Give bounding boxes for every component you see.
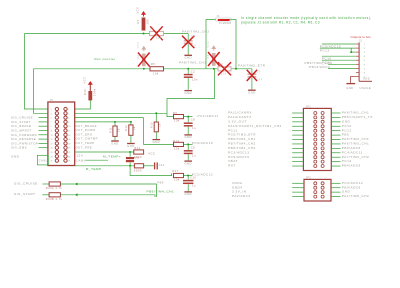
svg-text:VCC: VCC [83, 77, 87, 84]
net label SIG_START row [14, 192, 35, 196]
svg-text:6: 6 [68, 118, 69, 120]
wire JP1 left pin 1 [292, 112, 303, 114]
svg-text:GND: GND [184, 91, 191, 95]
net label VBAT [228, 159, 238, 163]
svg-text:R30B 4.7k: R30B 4.7k [46, 197, 63, 201]
ground for R11 [111, 141, 119, 145]
wire JP1 right pin 11 [331, 156, 340, 158]
resistor R3A [46, 182, 63, 190]
jumper J1 [216, 15, 232, 25]
svg-text:R13: R13 [173, 139, 179, 143]
svg-text:1u: 1u [192, 184, 196, 188]
wire R13 out [184, 143, 193, 145]
svg-text:PB4/ADC9: PB4/ADC9 [342, 164, 361, 168]
net label 3.3V_IN [232, 190, 247, 194]
svg-text:R10: R10 [83, 89, 87, 95]
svg-text:USAGE: USAGE [360, 86, 372, 90]
connector J2 label [359, 39, 363, 42]
connector J5 [48, 99, 75, 165]
svg-text:GND: GND [342, 190, 351, 194]
svg-text:PA5/TIM3_CH1: PA5/TIM3_CH1 [342, 137, 369, 141]
power VCC for R2B (ghosted) [136, 41, 146, 51]
svg-text:R14: R14 [134, 146, 140, 150]
ground for C10 [184, 192, 192, 196]
net label GND4 [232, 185, 243, 189]
svg-text:GND: GND [11, 154, 20, 158]
svg-text:21: 21 [51, 152, 53, 154]
wire JP1 right pin 13 [331, 165, 340, 167]
net label PC5/ADC15 (J2) [320, 44, 341, 48]
wire row1 to R6h [167, 113, 174, 116]
net label PC13 (J2) [320, 48, 330, 52]
resistor R4 (crossed out) [206, 52, 219, 66]
net label PA15/USART1_RX/TIM1_CH2 [228, 124, 282, 128]
svg-text:C11: C11 [159, 163, 165, 167]
connector JP1 [303, 105, 331, 170]
svg-text:12: 12 [68, 131, 70, 133]
wire SIG_CRUISE to J5 [39, 117, 48, 119]
wire JP1 right pin 1 [331, 112, 340, 114]
wire JP2 right pin 4 [331, 196, 341, 198]
net label PA12/CANTX [228, 115, 252, 119]
svg-text:PB6/TIM4_CH1: PB6/TIM4_CH1 [147, 189, 175, 193]
svg-text:11: 11 [51, 131, 53, 133]
net label PB14/ADC4 [309, 65, 330, 69]
pin label OUT_BRAKE [76, 124, 97, 128]
capacitor C11 [155, 162, 165, 169]
resistor R12 [124, 122, 136, 143]
svg-text:15: 15 [51, 139, 53, 141]
svg-text:8: 8 [68, 122, 69, 124]
svg-text:GND: GND [184, 135, 191, 139]
net label PC11 (J2) [322, 60, 332, 64]
wire JP1 left pin 10 [292, 152, 303, 154]
wire R19 to C11 [144, 165, 154, 167]
net label PB4/ADC9 [342, 164, 361, 168]
wire SIG_CRUISE stub [42, 183, 49, 185]
svg-text:R5: R5 [151, 62, 155, 66]
svg-text:PA15/USART1_RX/TIM1_CH2: PA15/USART1_RX/TIM1_CH2 [228, 124, 282, 128]
svg-text:10: 10 [68, 126, 70, 128]
net label PA0/TIM2_ETR [238, 63, 266, 67]
junction R2B/wire B [143, 68, 145, 70]
svg-text:TH: TH [135, 158, 139, 160]
svg-text:16: 16 [68, 139, 70, 141]
wire SIG_BRAKE to J5 [39, 125, 48, 127]
pin label OUT_ERG [76, 132, 93, 136]
net label RST [228, 164, 236, 168]
svg-text:OUT_PRE: OUT_PRE [76, 145, 93, 149]
svg-text:PC13: PC13 [320, 48, 330, 52]
net label PC0/TIM3_ETR [228, 133, 256, 137]
ground for C3 [248, 90, 256, 94]
svg-text:1: 1 [51, 109, 52, 111]
wire channel A [25, 33, 189, 35]
wire J5 row1 long [75, 112, 167, 114]
svg-text:PA8/TIM3_CH2: PA8/TIM3_CH2 [182, 30, 209, 34]
ground for C9 [184, 161, 192, 165]
thermistor RT1 [126, 152, 139, 166]
net label SIG_EMS [11, 146, 27, 150]
svg-text:10k: 10k [174, 177, 180, 181]
wire JP1 left pin 8 [292, 143, 303, 145]
pin label OUT_CWTMP [76, 137, 99, 141]
resistor R11 [108, 122, 120, 140]
net label SIG_REVERSE [11, 137, 36, 141]
net label PC1/ADC11 [198, 114, 219, 118]
svg-text:Rev counter: Rev counter [95, 57, 116, 61]
resistor R6B (crossed out) [218, 62, 231, 76]
svg-text:VDDA: VDDA [232, 181, 243, 185]
junction R4/wire B [213, 68, 215, 70]
label VCC text [148, 152, 155, 156]
svg-text:2: 2 [68, 109, 69, 111]
svg-text:PA12/CANTX: PA12/CANTX [228, 115, 252, 119]
wire M_TEMP- row [75, 165, 135, 167]
net label SIG_BRAKE [11, 124, 31, 128]
net label SIG_CRUISE row [14, 181, 38, 185]
svg-text:SIG_CRUISE: SIG_CRUISE [14, 181, 38, 185]
wire JP2 left pin 3 [292, 191, 304, 193]
svg-text:PB5: PB5 [342, 133, 349, 137]
junction R12/row2 [130, 121, 132, 123]
wire loop left to J5 pin 1 [25, 34, 48, 110]
wire JP2 right pin 2 [331, 187, 341, 189]
svg-text:C2: C2 [191, 69, 195, 73]
junction R3A [76, 183, 78, 186]
svg-text:SIG_EMS: SIG_EMS [11, 146, 27, 150]
svg-text:GND: GND [363, 77, 370, 81]
net label PC4/ADC11 [342, 150, 363, 154]
wire JP2 left pin 1 [292, 182, 304, 184]
wire R3A long [60, 184, 156, 197]
svg-text:19: 19 [51, 148, 53, 150]
wire JP1 left pin 11 [292, 156, 303, 158]
svg-text:PB7/TIM4_CH2: PB7/TIM4_CH2 [228, 142, 256, 146]
wire SIG_START stub [42, 194, 49, 196]
svg-text:4: 4 [68, 113, 69, 115]
pin label OUT_PRE [76, 145, 93, 149]
ground for C8 [184, 135, 192, 139]
net label PB6/USART1_TX [342, 115, 373, 119]
svg-text:J2: J2 [359, 39, 363, 42]
wire JP1 left pin 5 [292, 130, 303, 132]
power VCC for R4 (ghosted) [206, 41, 216, 51]
junction C10 [187, 175, 189, 177]
net label SIG_FORWARD [11, 133, 37, 137]
net label PC5/ADC15 [228, 155, 249, 159]
net label GND [342, 190, 351, 194]
resistor R2B (crossed out) [136, 53, 149, 67]
svg-text:R30A 4.7k: R30A 4.7k [46, 186, 63, 190]
wire J2 pin5 [322, 59, 356, 61]
svg-text:R2: R2 [150, 27, 154, 31]
svg-text:17: 17 [51, 143, 53, 145]
wire loop inner to J5 pin 3 [34, 69, 48, 114]
net label CANL box [37, 155, 48, 165]
wire JP1 left pin 7 [292, 139, 303, 141]
wire JP2 right pin 3 [331, 191, 341, 193]
net label PA2/ADC2 [232, 194, 251, 198]
wire J2 pin2-3 link [351, 48, 356, 52]
net label PA5/TIM3_CH1 [342, 137, 369, 141]
net label PB7/TIM4_CH2 [228, 142, 256, 146]
resistor R14 [134, 146, 144, 159]
resistor R5 [150, 62, 164, 76]
label PB6/TIM4_CH1 green [147, 189, 175, 193]
net label VSENSE [360, 86, 372, 90]
ground for J2 [346, 84, 355, 90]
svg-text:PC5/ADC15: PC5/ADC15 [228, 155, 249, 159]
wire channel B [34, 68, 252, 70]
wire SIG_PWR/STOP to J5 [39, 142, 48, 144]
pin label OUT_DOWN [76, 128, 96, 132]
svg-text:10n: 10n [192, 77, 198, 81]
svg-text:R2: R2 [136, 55, 140, 59]
svg-text:CANH: CANH [76, 159, 87, 163]
svg-text:VBAT: VBAT [228, 159, 238, 163]
junction R11/row3 [114, 121, 116, 123]
wire R6h out [184, 116, 193, 118]
net label PB0/ADC8 [342, 185, 361, 189]
svg-text:22: 22 [68, 152, 70, 154]
net label SIG_PWR/STOP [11, 141, 38, 145]
pin mark group3 [171, 173, 173, 175]
resistor R10 [83, 86, 97, 100]
net label SIG_START [11, 120, 31, 124]
svg-text:GND: GND [342, 119, 351, 123]
svg-text:VCC: VCC [148, 152, 155, 156]
resistor R1 [136, 18, 150, 31]
power VCC for R1 [136, 7, 146, 17]
svg-text:PC0/ADC10: PC0/ADC10 [192, 141, 213, 145]
resistor R13 [173, 139, 184, 151]
wire J2 pin7 [328, 67, 356, 69]
net label PC10 (J2) [322, 56, 332, 60]
wire JP1 right pin 12 [331, 161, 340, 163]
resistor R15 [150, 113, 162, 139]
wire JP1 right pin 9 [331, 147, 340, 149]
wire JP2 left pin 2 [292, 187, 304, 189]
wire M_TEMP+ row [75, 151, 134, 153]
svg-text:2k: 2k [116, 128, 120, 132]
svg-text:In single channel encoder mode: In single channel encoder mode (typicall… [241, 16, 372, 20]
svg-text:J5: J5 [50, 99, 54, 102]
svg-text:GND: GND [248, 91, 255, 95]
pin label CANH [76, 159, 87, 163]
svg-text:GND: GND [184, 192, 191, 196]
svg-text:PC4/ADC11: PC4/ADC11 [342, 150, 363, 154]
wire SIG_EMS to J5 [39, 147, 48, 149]
svg-text:1u: 1u [192, 126, 196, 130]
svg-text:2k: 2k [132, 126, 136, 130]
svg-text:3: 3 [51, 113, 52, 115]
net label PC0/ADC10 [192, 141, 213, 145]
ground for R15 [153, 140, 161, 144]
svg-text:C8: C8 [191, 118, 195, 122]
svg-text:PB8/TIM4_CH4: PB8/TIM4_CH4 [228, 146, 256, 150]
svg-text:PC10: PC10 [342, 124, 352, 128]
wire J5 row2 long [75, 117, 144, 119]
wire JP1 right pin 4 [331, 125, 340, 127]
junction R1/wire A [143, 33, 145, 35]
net label PA8/TIM1_CH1 [342, 111, 369, 115]
svg-text:10k: 10k [153, 71, 159, 75]
svg-text:R6: R6 [173, 111, 177, 115]
svg-text:VCC: VCC [136, 7, 140, 14]
wire JP1 right pin 10 [331, 152, 340, 154]
net label PB0/ADC8 [342, 146, 361, 150]
label M_TEMP- [86, 167, 103, 171]
svg-text:R17: R17 [172, 169, 178, 173]
svg-text:SIG_START: SIG_START [14, 192, 35, 196]
wire J5 row3 [75, 121, 131, 123]
svg-text:GND: GND [346, 86, 353, 90]
label Rev counter [95, 57, 116, 61]
svg-text:GND4: GND4 [232, 185, 243, 189]
net label GND [342, 119, 351, 123]
svg-text:PA6/TIM3_CH1: PA6/TIM3_CH1 [342, 142, 369, 146]
wire J2 pin4 [322, 55, 356, 57]
svg-text:PC13: PC13 [342, 159, 352, 163]
svg-text:PC1/ADC11: PC1/ADC11 [198, 114, 219, 118]
svg-text:VCC: VCC [136, 41, 140, 48]
capacitor C2 [184, 69, 198, 90]
svg-text:PC11: PC11 [228, 128, 238, 132]
svg-text:1u: 1u [192, 43, 196, 47]
svg-text:10k: 10k [146, 19, 150, 25]
svg-text:GND: GND [111, 141, 118, 145]
net label PA1/TIM5_CH2 [342, 194, 369, 198]
svg-text:10k: 10k [221, 72, 227, 76]
net label PB8 [157, 180, 163, 184]
svg-text:C9: C9 [191, 145, 195, 149]
net label SIG_MPROT [11, 129, 32, 133]
svg-text:GND: GND [184, 161, 191, 165]
net label PA8/TIM3_CH2 [182, 30, 209, 34]
svg-text:R11: R11 [108, 127, 112, 133]
wire JP1 left pin 4 [292, 125, 303, 127]
pin label 12V [76, 154, 83, 158]
resistor R2 (crossed out) [150, 26, 164, 40]
svg-text:PB8: PB8 [157, 180, 163, 184]
svg-text:R4: R4 [206, 54, 210, 58]
wire SIG_REVERSE to J5 [39, 138, 48, 140]
net label PA8/TIM3_CH1 [179, 61, 206, 65]
pin label OUT_TEMP [76, 141, 95, 145]
net label PB8/TIM4_CH4 [228, 146, 256, 150]
svg-text:GND: GND [184, 56, 191, 60]
svg-text:23: 23 [51, 156, 53, 158]
svg-text:PC2/ADC12: PC2/ADC12 [342, 181, 363, 185]
svg-text:10k: 10k [174, 119, 180, 123]
resistor R6 [173, 111, 184, 123]
wire JP1 left pin 9 [292, 147, 303, 149]
svg-text:C3: C3 [257, 69, 261, 73]
svg-text:10k: 10k [174, 146, 180, 150]
wire JP1 left pin 13 [292, 165, 303, 167]
net label PC2/ADC12 [192, 172, 213, 176]
svg-text:PB6/USART1_TX: PB6/USART1_TX [342, 115, 373, 119]
svg-text:CANL: CANL [39, 158, 48, 162]
wire JP1 right pin 3 [331, 121, 340, 123]
ground for C2 [184, 91, 192, 95]
net label PA6/TIM3_CH1 [342, 142, 369, 146]
net label PC13 [342, 159, 352, 163]
net label 3.3V_OUT [228, 119, 247, 123]
wire J1 left leg [206, 20, 216, 69]
svg-text:PB0/ADC8: PB0/ADC8 [342, 185, 361, 189]
svg-text:3.3V_OUT: 3.3V_OUT [228, 119, 247, 123]
capacitor C8 [184, 117, 196, 135]
svg-text:500R: 500R [134, 169, 142, 173]
svg-text:9: 9 [51, 126, 52, 128]
svg-text:PA2/ADC2: PA2/ADC2 [232, 194, 251, 198]
svg-text:M_TEMP+: M_TEMP+ [103, 154, 121, 158]
net label PB6/TIM4_CH1 [228, 137, 256, 141]
wire JP1 left pin 2 [292, 116, 303, 118]
resistor R3B [46, 193, 63, 201]
svg-text:7: 7 [51, 122, 52, 124]
svg-text:20: 20 [68, 148, 70, 150]
net label PA7/TIM3_CH2 [342, 155, 369, 159]
svg-text:26: 26 [68, 161, 70, 163]
svg-text:13: 13 [51, 135, 53, 137]
capacitor C3 (crossed out) [247, 69, 263, 90]
wire JP1 right pin 2 [331, 116, 340, 118]
svg-text:JUMPER: JUMPER [219, 22, 232, 25]
wire J2 pin2 [320, 47, 356, 49]
wire JP1 left pin 3 [292, 121, 303, 123]
wire R17 out [184, 175, 193, 177]
svg-text:PA0/TIM2_ETR: PA0/TIM2_ETR [238, 63, 266, 67]
svg-text:R12: R12 [124, 125, 128, 131]
wire R10 to J5 pin 2 [75, 101, 91, 110]
wire J1 right leg [230, 20, 237, 69]
net label GND (J5) [11, 154, 20, 158]
junction RT1 bottom [129, 165, 131, 167]
svg-text:PB14/ADC4: PB14/ADC4 [309, 65, 330, 69]
svg-text:5: 5 [51, 118, 52, 120]
net label PB5 [342, 133, 349, 137]
wire JP2 left pin 4 [292, 196, 304, 198]
svg-text:18: 18 [68, 143, 70, 145]
net label VDDA [232, 181, 243, 185]
svg-text:GND: GND [153, 140, 160, 144]
wire CANH stub [86, 159, 108, 161]
svg-text:J1: J1 [217, 15, 221, 18]
svg-text:M_TEMP-: M_TEMP- [86, 167, 103, 171]
net label PC10 [342, 124, 352, 128]
svg-text:12V: 12V [76, 154, 83, 158]
svg-text:C10: C10 [190, 176, 196, 180]
wire riser x167 [167, 69, 215, 114]
ground for R12 [127, 144, 135, 148]
svg-text:PC0/TIM3_ETR: PC0/TIM3_ETR [228, 133, 256, 137]
net label PA11/CANRX [228, 111, 252, 115]
wire J2 pin6 [328, 63, 356, 65]
wire JP1 right pin 6 [331, 134, 340, 136]
svg-text:.1u: .1u [258, 77, 263, 81]
svg-text:JP1: JP1 [306, 105, 312, 108]
wire drop x143.5 [144, 118, 174, 145]
junction J2 pin3 [350, 51, 352, 53]
wire SIG_START to J5 [39, 121, 48, 123]
svg-text:PC3/ADC13: PC3/ADC13 [228, 150, 249, 154]
pin label GND J2 [363, 77, 370, 81]
svg-text:PC12: PC12 [342, 128, 352, 132]
svg-text:PB0/ADC8: PB0/ADC8 [342, 146, 361, 150]
